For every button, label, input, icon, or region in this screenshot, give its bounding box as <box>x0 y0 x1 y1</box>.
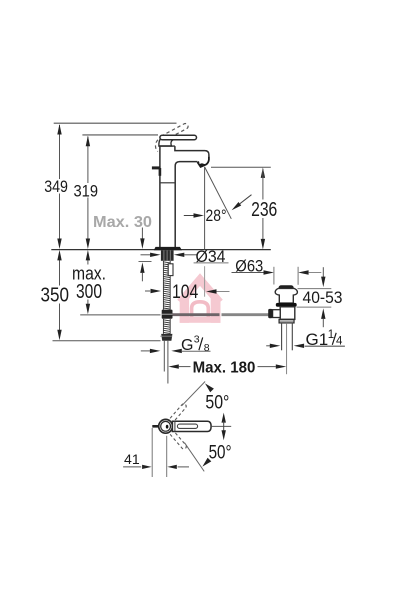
top-view lever bar <box>172 421 211 431</box>
dimension 104 <box>145 290 150 292</box>
drain body <box>280 307 295 320</box>
svg-text:40-53: 40-53 <box>303 288 343 307</box>
lever slot <box>177 424 197 428</box>
28 deg leader arrows <box>184 215 194 217</box>
threaded rod upper <box>163 261 170 310</box>
50deg leader bottom <box>185 443 205 472</box>
angle double arrow <box>222 413 226 423</box>
svg-text:3: 3 <box>194 333 200 345</box>
svg-text:350: 350 <box>41 285 70 307</box>
G3/8 connector <box>161 334 172 341</box>
faucet lever handle (front) <box>160 135 197 140</box>
watermark house logo <box>177 273 223 323</box>
svg-text:50°: 50° <box>209 442 232 463</box>
left tab <box>152 425 159 428</box>
centerline right of lever <box>211 425 231 427</box>
rod junction block <box>162 310 173 319</box>
dimension 319 line <box>87 137 89 184</box>
column joint line <box>160 182 175 184</box>
svg-text:G: G <box>181 337 193 354</box>
dimension G3/8 arrows <box>141 350 151 352</box>
dimension 40-53 <box>298 288 332 290</box>
dimension max 30 arrows <box>141 228 143 239</box>
drain side port <box>273 310 281 318</box>
svg-text:300: 300 <box>76 281 102 303</box>
50deg leader top <box>182 382 205 406</box>
dimension Max 180 <box>168 364 179 368</box>
Ø63 dim line w arrows <box>232 272 265 274</box>
svg-text:41: 41 <box>124 452 140 467</box>
drain nut band <box>279 319 294 323</box>
supply hose lines <box>163 341 165 372</box>
drain flange <box>275 288 297 303</box>
deck line <box>51 249 270 251</box>
body top line <box>159 145 175 147</box>
drain O-ring <box>276 303 297 307</box>
drain side knob <box>268 309 272 318</box>
svg-text:4: 4 <box>336 336 343 348</box>
Ø63 extension lines <box>273 267 275 285</box>
center dot <box>166 425 169 429</box>
pop-up rod (gray) <box>167 313 220 316</box>
svg-text:349: 349 <box>44 178 68 196</box>
pop-up rod knob on column <box>152 166 161 169</box>
extension line 350 bottom <box>53 340 161 342</box>
drain centerline <box>286 323 288 374</box>
svg-text:104: 104 <box>172 281 198 303</box>
threaded rod lower <box>163 319 170 334</box>
svg-text:Max. 30: Max. 30 <box>93 214 152 231</box>
drain plug cap <box>279 285 294 288</box>
mounting nut hatched <box>161 250 174 260</box>
dimension Ø34 arrows <box>141 254 151 256</box>
dimension G1 1/4 <box>266 345 270 347</box>
spout outlet vertical dimension line <box>204 167 206 250</box>
dimension 350 line <box>59 260 61 286</box>
dimension 41 <box>151 428 153 477</box>
lever dome cap <box>159 136 173 146</box>
dimension max 300 line <box>87 260 89 265</box>
svg-text:319: 319 <box>74 182 99 200</box>
dashed rotated lever up 50deg <box>170 404 186 449</box>
drain tailpipe <box>281 323 283 350</box>
svg-text:8: 8 <box>204 342 210 354</box>
extension line (lever rest height) <box>82 134 158 136</box>
extension line spout top right <box>211 166 271 168</box>
aerator <box>198 157 209 167</box>
extension line nut bottom <box>139 261 152 263</box>
28 deg slant line <box>205 167 232 219</box>
svg-text:1: 1 <box>328 329 334 341</box>
dimension 236 line <box>261 167 265 178</box>
svg-text:50°: 50° <box>205 393 229 414</box>
faucet body and spout outline <box>160 146 209 247</box>
dimension 349 line <box>59 125 61 179</box>
svg-text:28°: 28° <box>206 206 227 225</box>
extension line pop-up rod left <box>80 314 160 316</box>
label G1 1/4 underlined <box>305 345 345 347</box>
extension line top (raised lever height) <box>54 122 177 124</box>
dashed raised lever <box>155 124 188 152</box>
svg-text:236: 236 <box>251 199 277 221</box>
top-view circle (cartridge) <box>159 419 173 433</box>
svg-text:Max. 180: Max. 180 <box>193 360 256 377</box>
svg-text:G1: G1 <box>306 330 329 349</box>
base escutcheon flange <box>154 247 182 250</box>
rod guide block <box>168 264 173 276</box>
